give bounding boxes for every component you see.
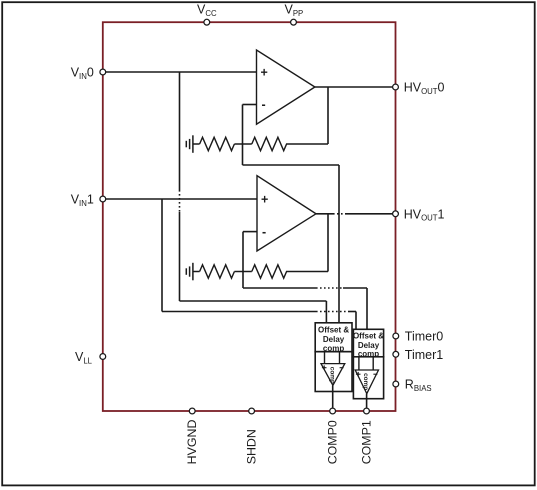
ground G2 [186,263,199,281]
wire U2 inverting input stub [243,231,257,233]
svg-text:COMP1: COMP1 [360,420,374,464]
comparator U4 box [353,357,383,399]
pin SHDN [249,408,255,414]
resistor R3 [200,265,235,278]
svg-text:comp: comp [362,373,369,390]
svg-text:+: + [261,193,268,207]
pin Timer0 [393,333,399,339]
svg-text:HVGND: HVGND [185,420,199,465]
pin VCC [204,19,210,25]
wire comp0 output [332,385,334,407]
pin VLL [100,354,106,360]
svg-text:Timer1: Timer1 [405,348,443,362]
wire comp1 output [366,394,368,408]
wire VIN0 branch horizontal to comp0 [180,300,327,302]
svg-text:+: + [261,66,268,80]
svg-text:Timer0: Timer0 [405,330,443,344]
wire U1 inverting node vertical [242,105,244,166]
wire U1 inverting input stub [243,104,257,106]
resistor R1 [200,137,235,150]
svg-text:Delay: Delay [323,335,345,344]
wire VIN0 to opamp U1 + input [103,71,257,73]
wire R3 R4 junction link [234,271,251,273]
wire VIN1 branch horizontal to comp1 [162,311,356,313]
wire comp1 left input drop [355,312,357,330]
wire U2 feedback vertical [327,214,329,272]
ground G1 [186,135,199,153]
wire U2 output to HVOUT1 [316,213,396,215]
wire VIN1 to opamp U2 + input [103,198,257,200]
svg-text:Offset &: Offset & [318,326,349,335]
pin HVOUT1 [393,211,399,217]
pin VIN0 [100,69,106,75]
resistor R4 [252,265,288,278]
pin COMP1 [364,408,370,414]
wire comp0 left input drop [325,301,327,323]
wire R1 R2 junction link [234,143,251,145]
pin HVOUT0 [393,84,399,90]
wire U2 inverting node to comp1 horizontal [243,287,367,289]
wire U1 output to HVOUT0 [315,86,396,88]
pin VIN1 [100,196,106,202]
comparator U3 box [315,352,352,392]
offset and delay comp block 0 [315,323,352,353]
wire comp0 right input drop [338,165,340,323]
pin COMP0 [330,408,336,414]
svg-text:COMP0: COMP0 [326,420,340,464]
svg-text:-: - [262,98,266,112]
svg-text:SHDN: SHDN [245,429,259,464]
pin VPP [291,19,297,25]
wire R4 to U2 feedback [288,271,328,273]
svg-text:Offset &: Offset & [353,332,384,341]
pin RBIAS [393,381,399,387]
op-amp U1 [257,50,315,124]
svg-text:comp: comp [328,367,335,384]
offset and delay comp block 1 [353,329,384,358]
resistor R2 [252,137,288,150]
IC block boundary [103,22,396,411]
wire U1 inverting node to comp0 horizontal [243,164,340,166]
wire comp1 right input drop [366,288,368,329]
svg-text:-: - [262,225,266,239]
op-amp U2 [257,176,316,251]
wire R2 to U1 feedback [288,143,328,145]
wire U2 inverting node vertical [242,232,244,288]
wire VIN1 branch vertical [161,199,163,312]
wire U1 feedback vertical [327,87,329,144]
pin HVGND [189,408,195,414]
wire VIN0 branch vertical to comp0 [179,72,181,301]
pin Timer1 [393,351,399,357]
